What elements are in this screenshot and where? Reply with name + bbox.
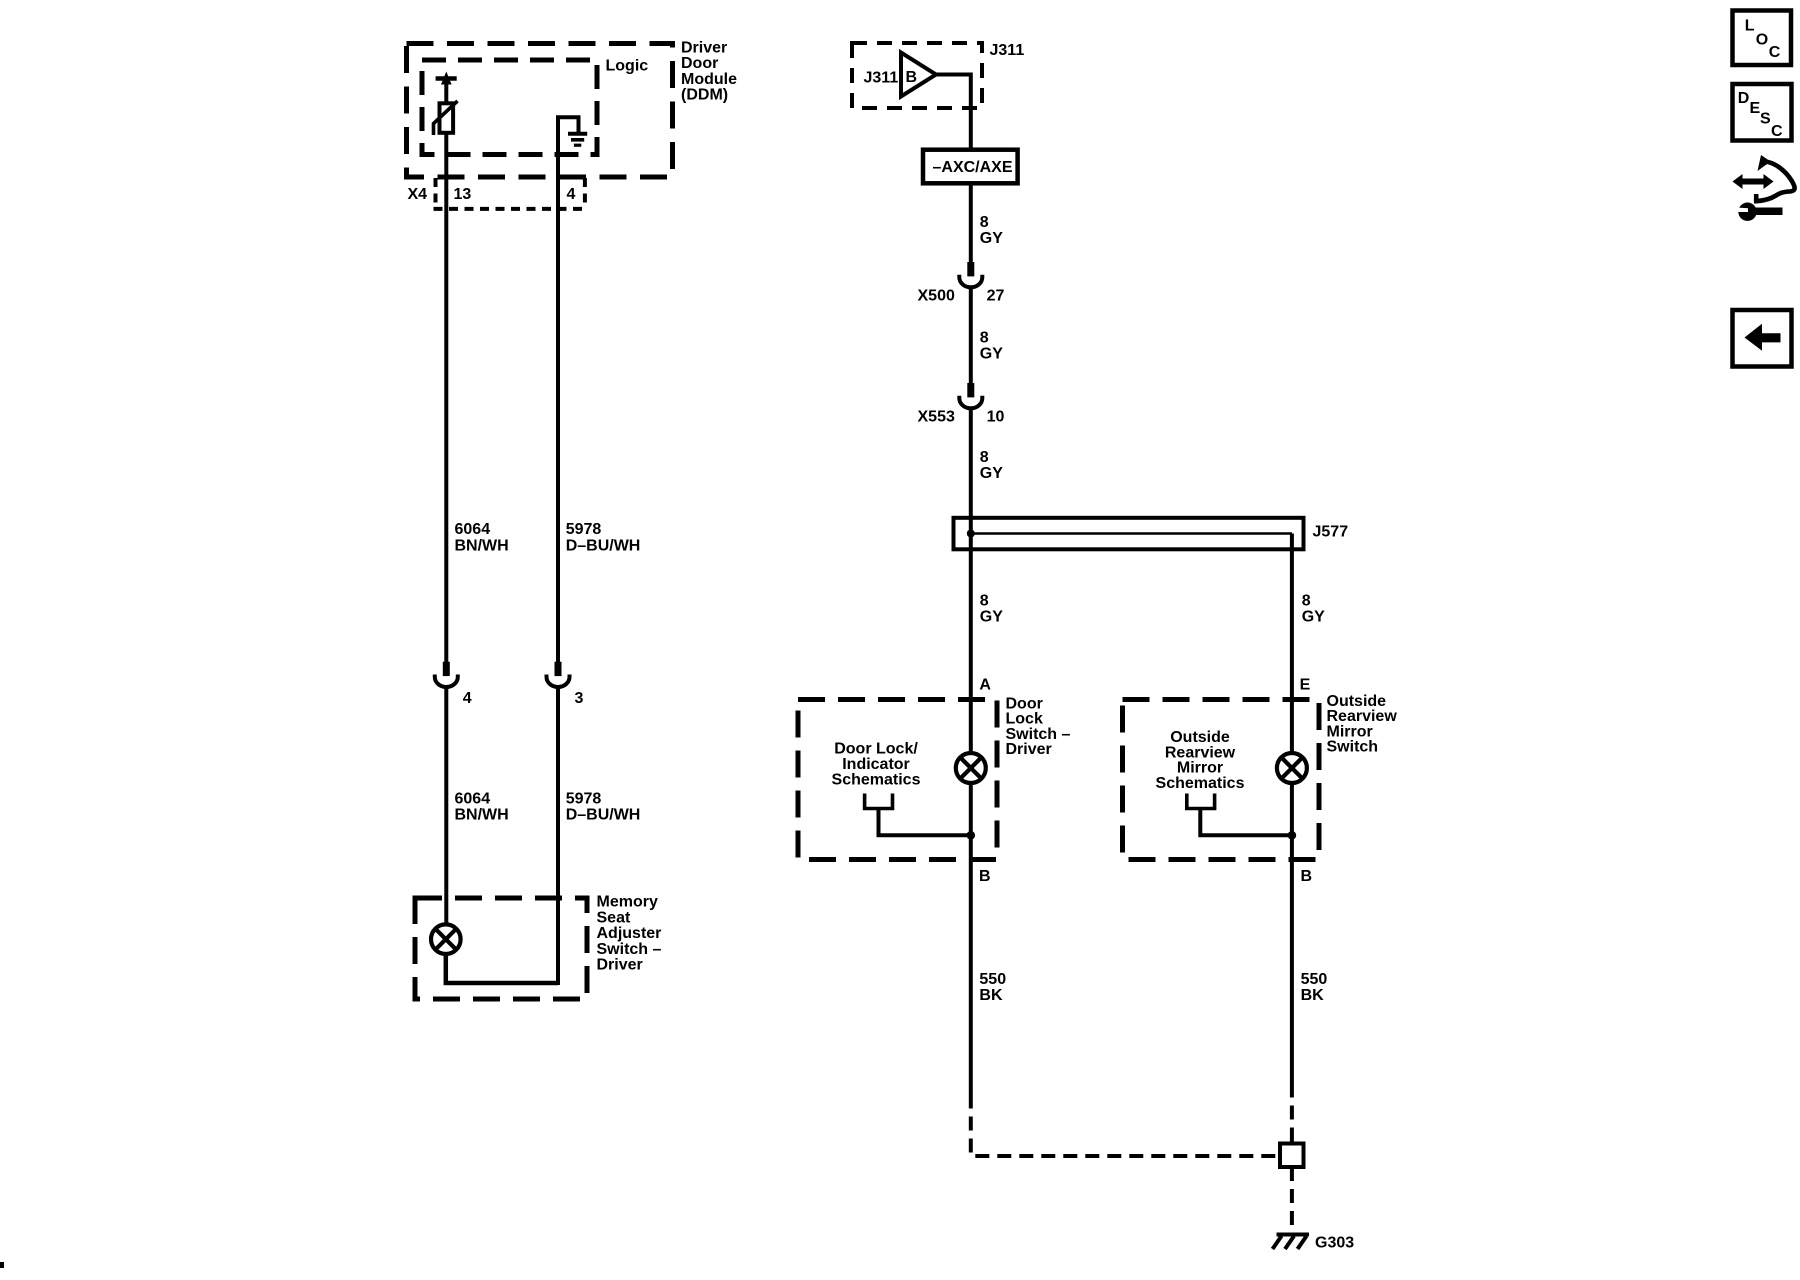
wire lamp down right branch xyxy=(1290,783,1294,1084)
svg-text:X500: X500 xyxy=(918,287,955,304)
ground symbol inside Logic xyxy=(558,117,587,662)
-AXC/AXE box xyxy=(923,150,1018,184)
svg-text:C: C xyxy=(1769,44,1781,61)
jump-to icon: curved arrow xyxy=(1756,162,1794,202)
wire 6064 lower segment xyxy=(444,688,448,925)
connector X500 xyxy=(959,262,982,287)
triangle B xyxy=(901,53,936,97)
svg-text:G303: G303 xyxy=(1315,1235,1354,1252)
wire X553 to J577 xyxy=(969,409,973,518)
svg-text:J311: J311 xyxy=(990,42,1025,59)
J311 dashed box xyxy=(852,43,982,108)
svg-text:Logic: Logic xyxy=(606,58,649,75)
wire 5978 lower segment xyxy=(556,688,560,986)
svg-text:C: C xyxy=(1771,123,1783,140)
Driver Door Module (DDM) dashed box xyxy=(407,44,673,178)
svg-text:Door Lock/IndicatorSchematics: Door Lock/IndicatorSchematics xyxy=(832,741,921,789)
right branch vertical from J577 xyxy=(1290,534,1294,754)
junction dot left xyxy=(967,831,976,840)
LOC icon box xyxy=(1733,11,1792,66)
dashed wire right branch down to splice square xyxy=(1290,1084,1294,1144)
bracket symbol left box xyxy=(865,794,893,809)
svg-text:B: B xyxy=(1301,868,1313,885)
variable resistor (illumination rheostat) in DDM xyxy=(436,79,457,104)
svg-text:A: A xyxy=(979,677,991,694)
wire through J577 (left leg) xyxy=(969,518,973,754)
bracket symbol right box xyxy=(1187,794,1215,809)
wire from triangle to AXC box xyxy=(936,75,971,151)
jump-to icon: double arrow xyxy=(1733,174,1774,189)
splice square xyxy=(1280,1144,1304,1168)
Memory Seat Adjuster Switch dashed box xyxy=(415,898,587,999)
splice horizontal wire in J577 xyxy=(971,532,1292,535)
lamp door lock switch xyxy=(956,753,986,783)
svg-text:4: 4 xyxy=(567,186,576,203)
lamp mirror switch xyxy=(1277,753,1307,783)
svg-text:D: D xyxy=(1738,90,1750,107)
wire X500 to X553 xyxy=(969,288,973,384)
svg-text:E: E xyxy=(1750,100,1761,117)
svg-text:O: O xyxy=(1756,32,1768,49)
Door Lock / Indicator Schematics dashed box xyxy=(798,700,997,860)
svg-text:E: E xyxy=(1300,677,1311,694)
jump-to icon: wrench xyxy=(1737,203,1783,221)
wire pin13 vertical (DDM to connector) xyxy=(444,133,448,662)
ground G303 symbol xyxy=(1273,1235,1310,1250)
inline connector pin 3 on right wire xyxy=(547,662,570,687)
svg-text:B: B xyxy=(906,69,918,86)
svg-text:J577: J577 xyxy=(1313,524,1349,541)
junction dot right xyxy=(1288,831,1297,840)
dashed wire left branch down and right to splice square xyxy=(971,1095,1280,1157)
svg-text:27: 27 xyxy=(987,287,1005,304)
back arrow icon box xyxy=(1733,310,1792,367)
svg-text:10: 10 xyxy=(987,408,1005,425)
wire lamp down through box xyxy=(969,783,973,1095)
svg-text:L: L xyxy=(1745,18,1755,35)
svg-text:550BK: 550BK xyxy=(1301,971,1328,1004)
bracket drop wire to junction xyxy=(879,809,971,836)
svg-text:4: 4 xyxy=(463,690,472,707)
inline connector pin 4 on left wire xyxy=(435,662,458,687)
svg-text:X553: X553 xyxy=(918,408,955,425)
svg-text:–AXC/AXE: –AXC/AXE xyxy=(933,159,1013,176)
wire AXC to X500 xyxy=(969,183,973,262)
svg-text:B: B xyxy=(979,868,991,885)
wire lamp to corner xyxy=(446,954,558,983)
dashed wire square to ground xyxy=(1290,1167,1294,1233)
svg-text:13: 13 xyxy=(454,186,472,203)
Outside Rearview Mirror Schematics dashed box xyxy=(1123,700,1320,860)
connector X553 xyxy=(959,383,982,408)
svg-text:X4: X4 xyxy=(408,186,428,203)
DESC icon box xyxy=(1733,84,1792,141)
connector X4 fine dashed box xyxy=(434,178,587,209)
bracket drop wire to junction right xyxy=(1200,809,1292,836)
J577 splice pack box xyxy=(954,518,1304,550)
svg-text:J311: J311 xyxy=(864,70,899,87)
svg-text:S: S xyxy=(1760,111,1771,128)
edge speck xyxy=(0,1262,4,1268)
junction dot in J577 xyxy=(967,530,975,538)
lamp in memory seat switch xyxy=(431,924,461,954)
svg-text:550BK: 550BK xyxy=(979,971,1006,1004)
Logic dashed box xyxy=(422,60,597,155)
svg-text:3: 3 xyxy=(575,690,584,707)
